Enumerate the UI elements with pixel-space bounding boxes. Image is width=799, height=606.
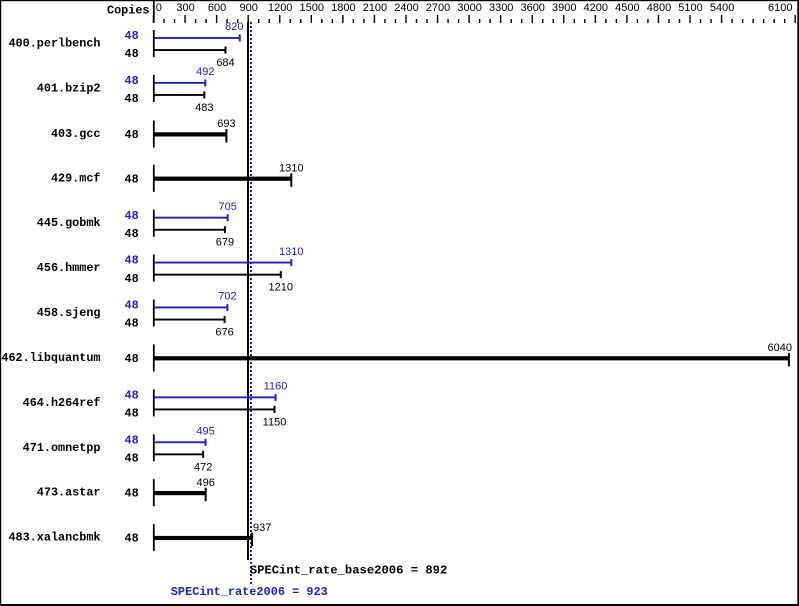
x axis labels: [156, 2, 793, 14]
peak mean reference line (923, dotted): [250, 22, 252, 584]
svg-text:48: 48: [125, 299, 139, 313]
svg-text:48: 48: [125, 209, 139, 223]
svg-text:458.sjeng: 458.sjeng: [37, 306, 101, 320]
svg-text:48: 48: [125, 452, 139, 466]
svg-text:48: 48: [125, 47, 139, 61]
svg-text:483: 483: [195, 102, 213, 114]
group axis stub 400.perlbench: [153, 30, 155, 57]
base bar 401.bzip2 = 483: [154, 91, 205, 98]
peak bar 401.bzip2 = 492: [154, 79, 206, 86]
svg-text:1200: 1200: [268, 2, 292, 14]
group axis stub 403.gcc: [153, 121, 155, 148]
svg-text:937: 937: [253, 522, 271, 534]
svg-text:1160: 1160: [264, 381, 288, 393]
svg-text:676: 676: [215, 327, 233, 339]
svg-text:462.libquantum: 462.libquantum: [1, 351, 100, 365]
svg-text:48: 48: [125, 172, 139, 186]
svg-text:464.h264ref: 464.h264ref: [23, 396, 101, 410]
peak bar 464.h264ref = 1160: [154, 394, 277, 401]
svg-text:48: 48: [125, 532, 139, 546]
svg-text:473.astar: 473.astar: [37, 486, 101, 500]
svg-text:472: 472: [194, 461, 212, 473]
base bar 456.hmmer = 1210: [154, 271, 282, 278]
peak bar 456.hmmer = 1310: [154, 259, 292, 266]
svg-text:48: 48: [125, 272, 139, 286]
svg-text:4500: 4500: [615, 2, 639, 14]
svg-text:SPECint_rate_base2006 = 892: SPECint_rate_base2006 = 892: [250, 564, 447, 578]
svg-text:445.gobmk: 445.gobmk: [37, 216, 101, 230]
base bar 483.xalancbmk = 937: [154, 533, 253, 547]
svg-text:1150: 1150: [263, 416, 287, 428]
base bar 458.sjeng = 676: [154, 316, 226, 323]
svg-text:492: 492: [196, 66, 214, 78]
peak bar 400.perlbench = 820: [154, 35, 241, 42]
svg-text:400.perlbench: 400.perlbench: [8, 37, 100, 51]
svg-text:3900: 3900: [552, 2, 576, 14]
base bar 473.astar = 496: [154, 488, 207, 502]
svg-text:5100: 5100: [678, 2, 702, 14]
svg-text:48: 48: [125, 352, 139, 366]
svg-text:48: 48: [125, 74, 139, 88]
x axis ticks: [153, 15, 796, 23]
svg-text:5400: 5400: [710, 2, 734, 14]
svg-text:2700: 2700: [426, 2, 450, 14]
svg-text:456.hmmer: 456.hmmer: [37, 261, 101, 275]
svg-text:Copies: Copies: [107, 4, 149, 18]
base bar 429.mcf = 1310: [154, 173, 292, 187]
svg-text:429.mcf: 429.mcf: [51, 171, 101, 185]
svg-text:1210: 1210: [269, 282, 293, 294]
svg-text:820: 820: [225, 21, 243, 33]
base bar 464.h264ref = 1150: [154, 406, 275, 413]
svg-text:401.bzip2: 401.bzip2: [37, 81, 101, 95]
svg-text:3300: 3300: [489, 2, 513, 14]
base bar 403.gcc = 693: [154, 129, 227, 143]
svg-text:3000: 3000: [457, 2, 481, 14]
svg-text:471.omnetpp: 471.omnetpp: [23, 441, 101, 455]
svg-text:48: 48: [125, 407, 139, 421]
group axis stub 456.hmmer: [153, 255, 155, 282]
axis origin vertical line: [153, 0, 155, 23]
svg-text:1500: 1500: [300, 2, 324, 14]
svg-text:4800: 4800: [647, 2, 671, 14]
svg-text:679: 679: [216, 237, 234, 249]
svg-text:2400: 2400: [394, 2, 418, 14]
svg-text:2100: 2100: [363, 2, 387, 14]
svg-text:600: 600: [208, 2, 226, 14]
svg-text:6100: 6100: [768, 2, 792, 14]
svg-text:0: 0: [156, 2, 162, 14]
base bar 445.gobmk = 679: [154, 226, 226, 233]
group axis stub 458.sjeng: [153, 300, 155, 327]
svg-text:684: 684: [216, 57, 234, 69]
svg-text:693: 693: [217, 118, 235, 130]
base bar 400.perlbench = 684: [154, 47, 226, 54]
group axis stub 445.gobmk: [153, 210, 155, 237]
base mean reference line (892): [247, 22, 249, 560]
svg-text:1800: 1800: [331, 2, 355, 14]
svg-text:900: 900: [240, 2, 258, 14]
svg-text:483.xalancbmk: 483.xalancbmk: [8, 531, 100, 545]
svg-text:705: 705: [219, 201, 237, 213]
svg-text:48: 48: [125, 128, 139, 142]
svg-text:495: 495: [196, 426, 214, 438]
svg-text:702: 702: [218, 291, 236, 303]
svg-text:48: 48: [125, 317, 139, 331]
group axis stub 401.bzip2: [153, 75, 155, 102]
svg-text:1310: 1310: [279, 246, 303, 258]
group axis stub 483.xalancbmk: [153, 524, 155, 551]
svg-text:496: 496: [197, 477, 215, 489]
group axis stub 473.astar: [153, 479, 155, 506]
svg-text:48: 48: [125, 29, 139, 43]
svg-text:4200: 4200: [584, 2, 608, 14]
svg-text:300: 300: [176, 2, 194, 14]
svg-text:48: 48: [125, 487, 139, 501]
svg-text:48: 48: [125, 227, 139, 241]
peak bar 471.omnetpp = 495: [154, 439, 207, 446]
svg-text:6040: 6040: [768, 342, 792, 354]
svg-text:48: 48: [125, 389, 139, 403]
svg-text:403.gcc: 403.gcc: [51, 127, 101, 141]
svg-text:SPECint_rate2006 = 923: SPECint_rate2006 = 923: [171, 585, 328, 599]
group axis stub 462.libquantum: [153, 344, 155, 371]
group axis stub 429.mcf: [153, 165, 155, 192]
peak bar 458.sjeng = 702: [154, 304, 228, 311]
svg-text:3600: 3600: [520, 2, 544, 14]
svg-text:1310: 1310: [279, 163, 303, 175]
group axis stub 471.omnetpp: [153, 434, 155, 461]
group axis stub 464.h264ref: [153, 389, 155, 416]
svg-text:48: 48: [125, 92, 139, 106]
svg-text:48: 48: [125, 254, 139, 268]
base bar 462.libquantum = 6040: [154, 353, 790, 367]
peak bar 445.gobmk = 705: [154, 214, 229, 221]
svg-text:48: 48: [125, 433, 139, 447]
base bar 471.omnetpp = 472: [154, 451, 204, 458]
